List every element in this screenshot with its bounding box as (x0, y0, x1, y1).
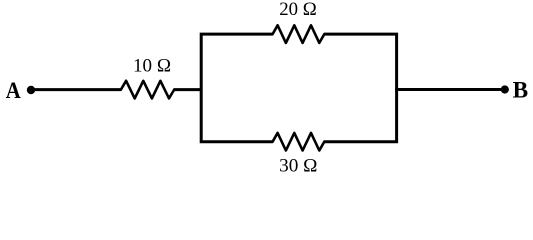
svg-text:B: B (513, 77, 529, 102)
svg-text:A: A (6, 78, 21, 103)
wire A to R1 (31, 88, 122, 91)
terminal dot A (27, 86, 35, 94)
wire R1 to node (174, 88, 203, 91)
resistor R2 (273, 25, 325, 43)
wire right branch (vertical + top/bottom stubs) (324, 34, 397, 142)
wire left branch (vertical + top/bottom stubs) (201, 34, 273, 142)
svg-text:30 Ω: 30 Ω (279, 156, 317, 176)
svg-text:20 Ω: 20 Ω (279, 0, 317, 20)
resistor R3 (273, 133, 325, 151)
terminal dot B (501, 85, 509, 93)
resistor R1 (121, 81, 174, 99)
wire node to B (395, 88, 505, 91)
svg-text:10 Ω: 10 Ω (133, 57, 171, 77)
